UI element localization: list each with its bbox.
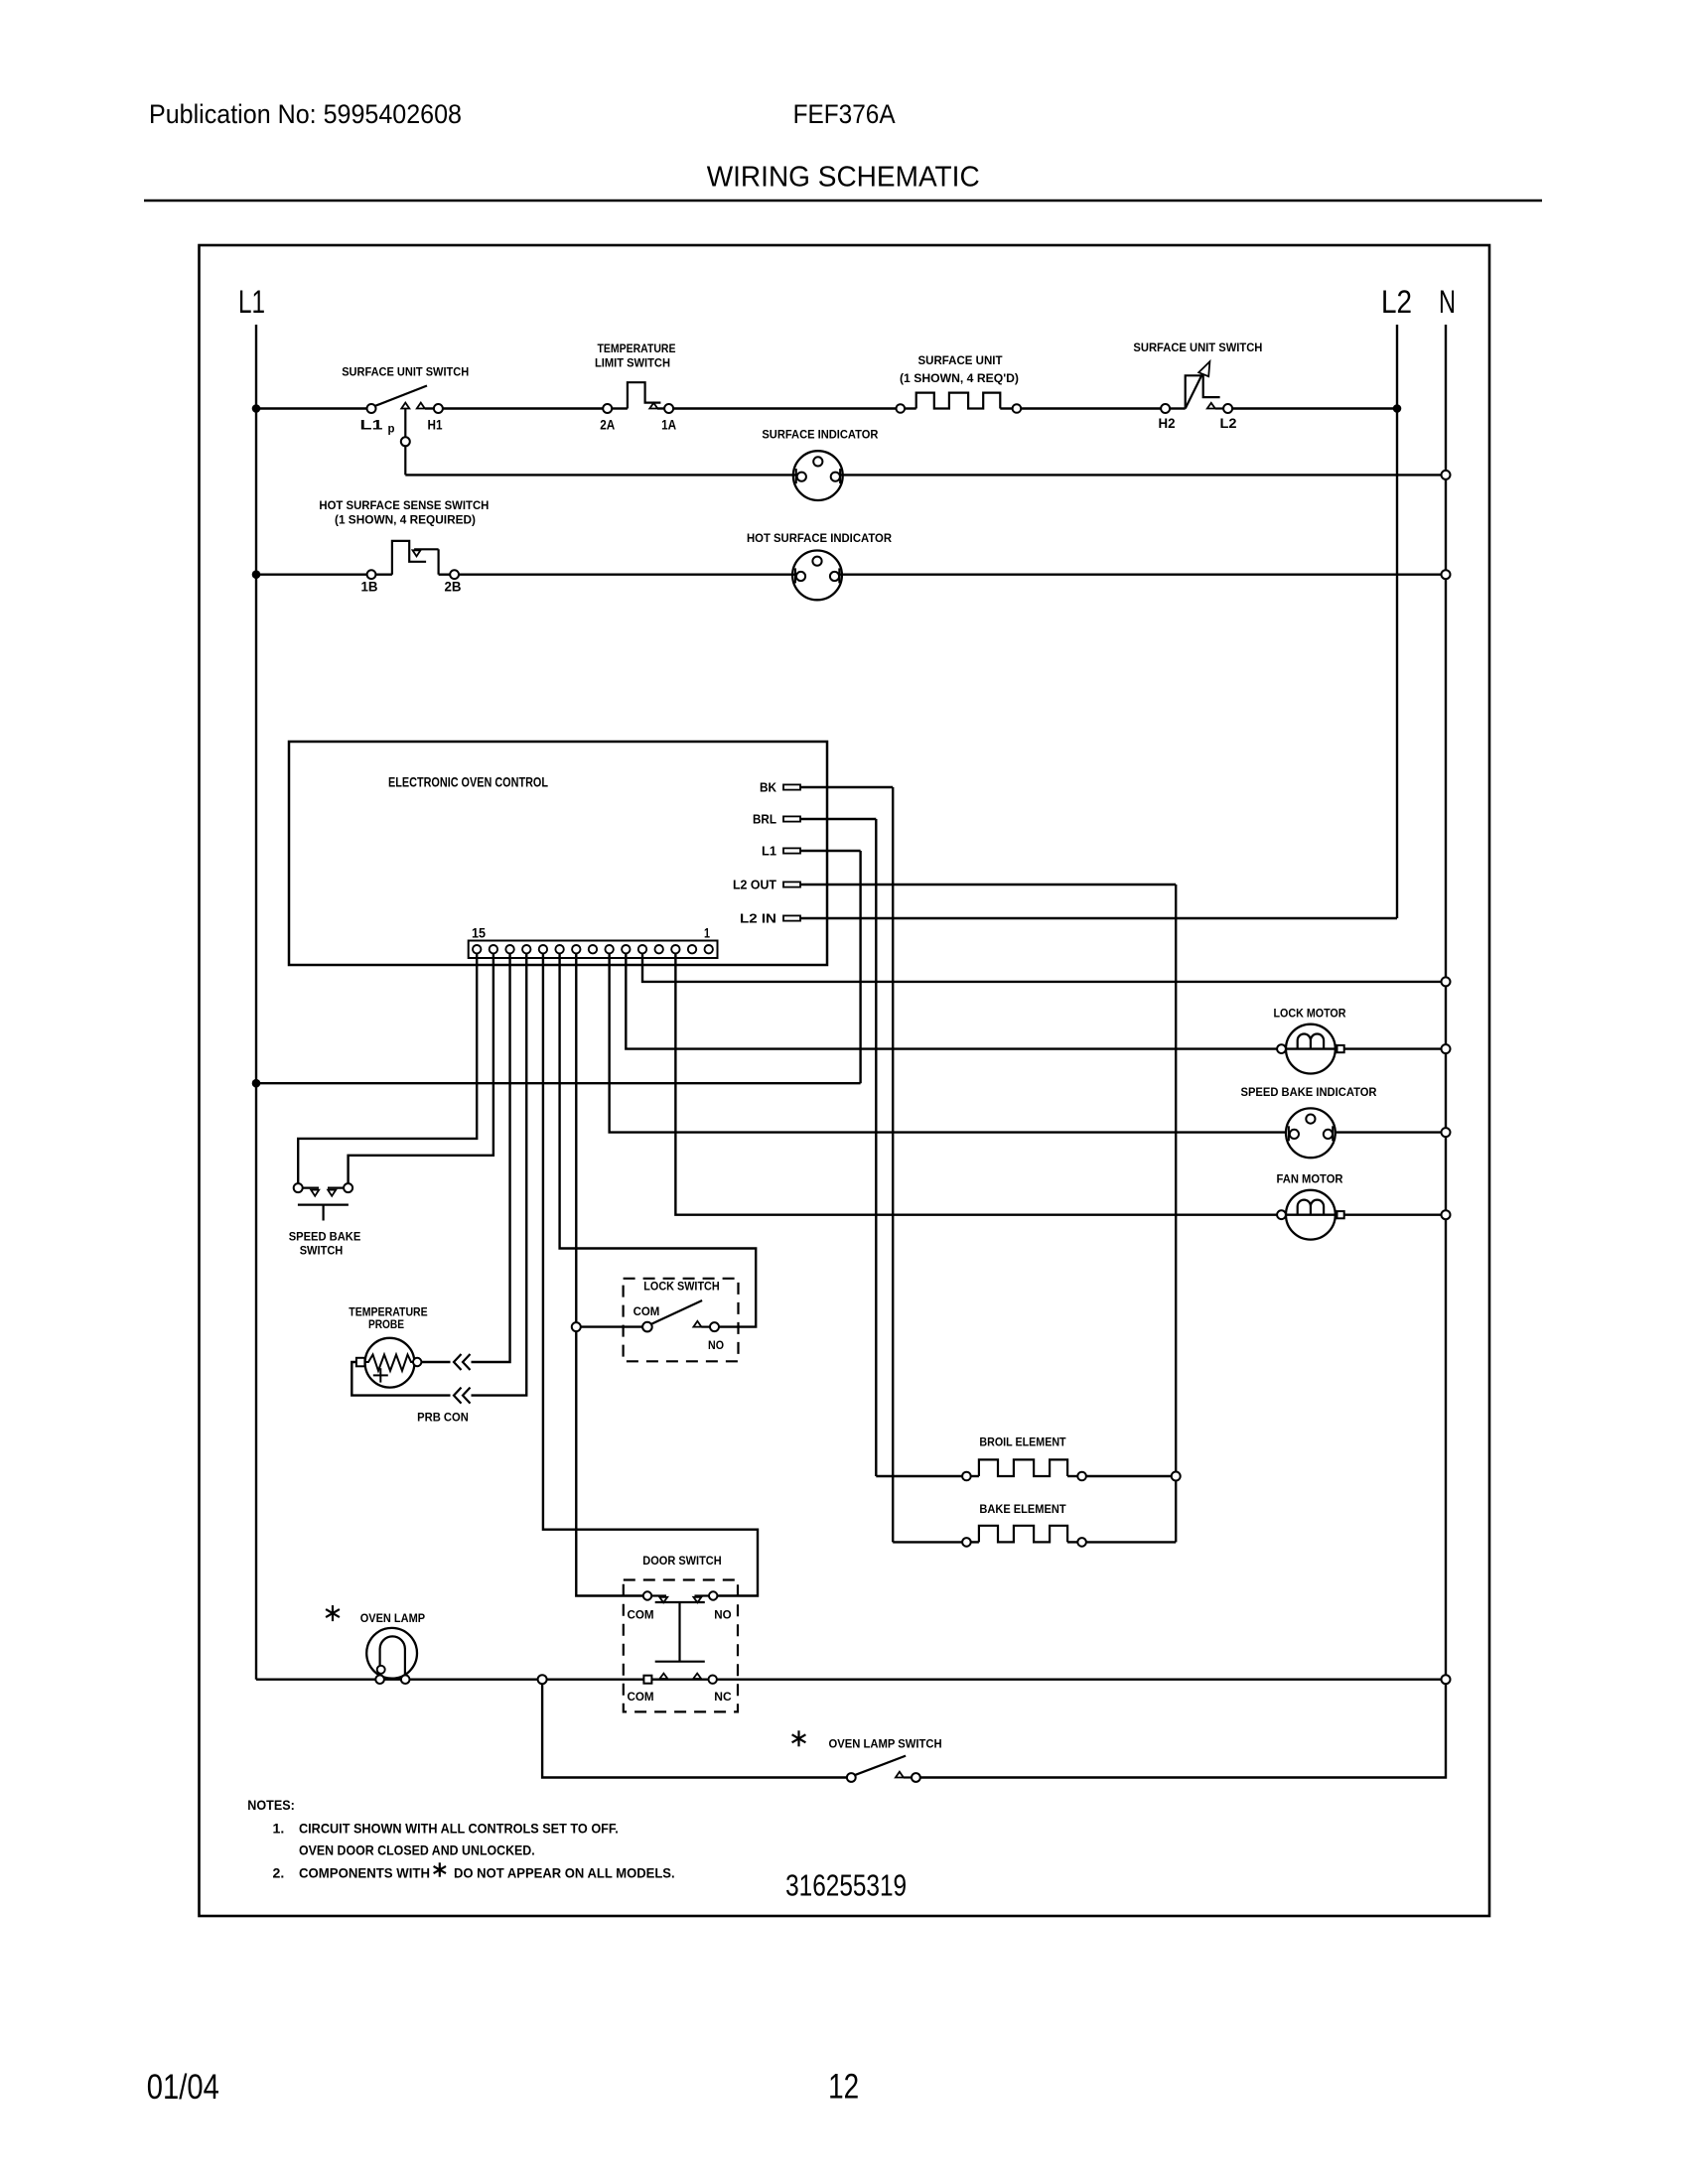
- svg-text:OVEN LAMP: OVEN LAMP: [360, 1611, 425, 1625]
- svg-text:2A: 2A: [600, 416, 615, 432]
- svg-text:SURFACE INDICATOR: SURFACE INDICATOR: [762, 427, 878, 441]
- svg-text:ELECTRONIC OVEN CONTROL: ELECTRONIC OVEN CONTROL: [388, 775, 548, 790]
- svg-text:NO: NO: [708, 1338, 724, 1352]
- svg-text:1: 1: [704, 925, 710, 941]
- svg-text:LOCK MOTOR: LOCK MOTOR: [1274, 1007, 1346, 1021]
- svg-text:FEF376A: FEF376A: [793, 99, 896, 129]
- svg-text:BAKE ELEMENT: BAKE ELEMENT: [979, 1502, 1066, 1516]
- svg-text:NO: NO: [714, 1608, 731, 1622]
- svg-text:L2 IN: L2 IN: [740, 911, 776, 926]
- svg-text:L1: L1: [762, 844, 776, 859]
- svg-text:COM: COM: [633, 1304, 660, 1318]
- svg-text:DO NOT APPEAR ON ALL MODELS.: DO NOT APPEAR ON ALL MODELS.: [454, 1865, 675, 1880]
- svg-text:WIRING SCHEMATIC: WIRING SCHEMATIC: [707, 162, 980, 194]
- svg-text:DOOR SWITCH: DOOR SWITCH: [642, 1554, 721, 1568]
- svg-text:L2: L2: [1220, 415, 1237, 431]
- svg-text:OVEN DOOR CLOSED AND UNLOCKED.: OVEN DOOR CLOSED AND UNLOCKED.: [299, 1843, 535, 1858]
- svg-text:SURFACE UNIT SWITCH: SURFACE UNIT SWITCH: [1133, 341, 1262, 354]
- svg-text:Publication No: 5995402608: Publication No: 5995402608: [149, 99, 462, 129]
- svg-text:HOT SURFACE INDICATOR: HOT SURFACE INDICATOR: [747, 531, 892, 545]
- svg-text:HOT SURFACE SENSE SWITCH: HOT SURFACE SENSE SWITCH: [319, 498, 489, 512]
- svg-text:1A: 1A: [661, 416, 676, 432]
- svg-text:01/04: 01/04: [147, 2068, 219, 2107]
- svg-text:CIRCUIT SHOWN WITH ALL CONTROL: CIRCUIT SHOWN WITH ALL CONTROLS SET TO O…: [299, 1821, 619, 1836]
- svg-text:PROBE: PROBE: [368, 1317, 404, 1331]
- svg-text:15: 15: [472, 925, 486, 941]
- svg-text:SPEED BAKE: SPEED BAKE: [289, 1229, 361, 1243]
- svg-text:p: p: [388, 422, 395, 436]
- svg-text:(1 SHOWN, 4 REQUIRED): (1 SHOWN, 4 REQUIRED): [335, 513, 476, 527]
- svg-text:12: 12: [828, 2068, 859, 2107]
- svg-text:2B: 2B: [445, 579, 462, 595]
- svg-text:H2: H2: [1159, 415, 1176, 431]
- svg-text:NOTES:: NOTES:: [247, 1797, 294, 1813]
- svg-text:COM: COM: [627, 1608, 653, 1622]
- svg-text:L1: L1: [238, 284, 265, 320]
- svg-text:N: N: [1439, 284, 1456, 320]
- svg-text:BRL: BRL: [753, 812, 776, 827]
- svg-text:316255319: 316255319: [785, 1867, 907, 1902]
- svg-text:COM: COM: [627, 1690, 653, 1704]
- svg-text:1.: 1.: [273, 1821, 285, 1836]
- svg-text:COMPONENTS WITH: COMPONENTS WITH: [299, 1865, 430, 1880]
- svg-text:OVEN LAMP SWITCH: OVEN LAMP SWITCH: [829, 1737, 942, 1751]
- svg-text:L2 OUT: L2 OUT: [733, 878, 776, 892]
- svg-text:NC: NC: [714, 1690, 732, 1704]
- svg-text:LIMIT SWITCH: LIMIT SWITCH: [595, 355, 670, 369]
- svg-text:H1: H1: [428, 416, 443, 432]
- svg-text:SPEED BAKE INDICATOR: SPEED BAKE INDICATOR: [1241, 1085, 1377, 1099]
- svg-text:L1: L1: [360, 416, 383, 432]
- svg-text:BK: BK: [760, 780, 777, 795]
- svg-text:PRB CON: PRB CON: [417, 1411, 469, 1425]
- svg-text:FAN MOTOR: FAN MOTOR: [1277, 1172, 1343, 1186]
- svg-text:(1 SHOWN, 4 REQ'D): (1 SHOWN, 4 REQ'D): [900, 371, 1019, 385]
- svg-text:1B: 1B: [361, 579, 378, 595]
- svg-text:SWITCH: SWITCH: [300, 1244, 344, 1258]
- svg-text:LOCK SWITCH: LOCK SWITCH: [643, 1279, 719, 1293]
- svg-text:SURFACE UNIT: SURFACE UNIT: [918, 353, 1004, 367]
- svg-text:L2: L2: [1381, 284, 1412, 320]
- svg-text:2.: 2.: [273, 1865, 285, 1880]
- svg-text:SURFACE UNIT SWITCH: SURFACE UNIT SWITCH: [342, 365, 469, 379]
- svg-text:BROIL ELEMENT: BROIL ELEMENT: [979, 1435, 1066, 1449]
- svg-text:TEMPERATURE: TEMPERATURE: [598, 341, 676, 355]
